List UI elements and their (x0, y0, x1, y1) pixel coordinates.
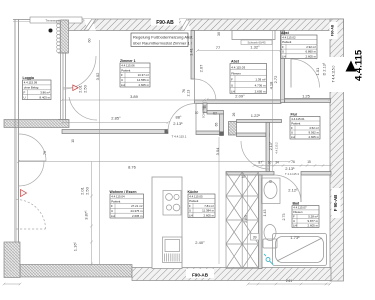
svg-text:Abst: Abst (231, 60, 240, 64)
svg-text:27.21 m²: 27.21 m² (131, 204, 142, 208)
svg-text:Parkett: Parkett (189, 199, 198, 203)
kitchen stove (163, 191, 181, 216)
door arc wohnen left upper (19, 134, 46, 161)
svg-text:2.605 m: 2.605 m (132, 214, 143, 218)
svg-text:65: 65 (215, 123, 219, 127)
svg-text:3.87⁵: 3.87⁵ (84, 210, 89, 220)
wall break mark 1 (84, 19, 96, 31)
svg-text:2.605 m: 2.605 m (255, 89, 266, 93)
label box 39 (251, 234, 260, 241)
svg-text:2.13⁵: 2.13⁵ (173, 121, 183, 126)
svg-text:2.13°: 2.13° (269, 141, 273, 150)
svg-text:LH: LH (291, 135, 295, 139)
svg-text:4.18: 4.18 (269, 81, 274, 90)
svg-text:Fliesen: Fliesen (231, 71, 241, 75)
wall top exterior F90-AB band (63, 19, 344, 31)
wall zimmer1 bottom partition (62, 130, 168, 134)
wall cap dark kueche top (266, 133, 270, 137)
svg-text:2.50: 2.50 (85, 186, 90, 195)
svg-text:11.384 m: 11.384 m (202, 209, 214, 213)
svg-text:2.605 m: 2.605 m (204, 213, 215, 217)
svg-text:10: 10 (241, 175, 245, 179)
svg-text:U: U (293, 219, 295, 223)
svg-text:T 4.4.115.1: T 4.4.115.1 (172, 134, 187, 138)
wall loggia-zimmer1 crosshatch (61, 20, 69, 53)
svg-text:2.13: 2.13 (187, 90, 191, 97)
svg-text:Wohnen / Essen: Wohnen / Essen (110, 190, 137, 194)
door arc wohnen left lower (19, 161, 44, 186)
svg-text:4.4.115.03: 4.4.115.03 (231, 65, 245, 69)
svg-text:4.4.115: 4.4.115 (354, 49, 365, 81)
svg-text:Loggia: Loggia (23, 76, 35, 80)
note box fussbodenheizung (131, 33, 194, 47)
svg-text:62: 62 (213, 112, 217, 116)
wall right exterior band (330, 19, 344, 281)
wall bottom left band (20, 265, 132, 278)
entrance opening in right wall (330, 57, 345, 92)
svg-text:U: U (121, 78, 123, 82)
kitchen counter (152, 177, 182, 269)
bath vanity (262, 178, 281, 204)
svg-text:2.605 m: 2.605 m (306, 54, 317, 58)
svg-text:Küche: Küche (188, 190, 199, 194)
svg-text:Fliesen: Fliesen (293, 210, 303, 214)
svg-text:2.40°: 2.40° (195, 240, 205, 245)
window loggia french door frame (58, 53, 68, 120)
svg-text:Regelung Fußbodenheizung Abst.: Regelung Fußbodenheizung Abst. (133, 35, 194, 40)
svg-text:4.4.115.01: 4.4.115.01 (291, 117, 305, 121)
svg-text:24.375 m: 24.375 m (130, 209, 143, 213)
table abst (230, 60, 267, 94)
svg-text:9.562 m: 9.562 m (309, 130, 320, 134)
svg-text:1.25: 1.25 (302, 94, 311, 99)
svg-text:8.76: 8.76 (128, 165, 137, 170)
wall kueche top (237, 133, 270, 137)
faucet marker cyan (264, 254, 273, 265)
svg-text:U: U (282, 50, 284, 54)
svg-text:F 90-AB: F 90-AB (333, 195, 338, 212)
table kueche (188, 190, 216, 218)
svg-text:1.39 m²: 1.39 m² (255, 77, 265, 81)
svg-text:Parkett: Parkett (111, 199, 120, 203)
svg-text:4.4.115.05: 4.4.115.05 (189, 195, 203, 199)
door arc dashed wohnen outward (16, 200, 46, 230)
svg-text:13.37 m²: 13.37 m² (138, 73, 149, 77)
svg-text:2.12⁵: 2.12⁵ (288, 188, 298, 193)
table bad (292, 202, 319, 228)
svg-text:4.736 m: 4.736 m (255, 83, 266, 87)
svg-text:2.13⁵: 2.13⁵ (285, 166, 295, 171)
svg-text:3.89: 3.89 (130, 94, 139, 99)
svg-text:14.555 m: 14.555 m (137, 78, 150, 82)
label F90-AB top wall (151, 18, 179, 27)
door arc entrance (291, 59, 320, 88)
wall loggia top parapet line (13, 19, 63, 21)
wall break mark 2 (180, 19, 191, 31)
svg-text:1.41: 1.41 (189, 47, 194, 56)
svg-text:10: 10 (268, 161, 272, 165)
marker red triangle loggia door (63, 85, 78, 91)
svg-text:F: F (282, 45, 284, 49)
label F 90-AB right wall (332, 188, 341, 218)
svg-text:9.877 m: 9.877 m (308, 219, 319, 223)
svg-text:7.81 m²: 7.81 m² (204, 204, 214, 208)
svg-text:LH: LH (282, 54, 286, 58)
svg-text:26: 26 (232, 113, 236, 117)
svg-text:F: F (111, 204, 113, 208)
wall left glazing lines (14, 20, 16, 243)
svg-text:über Raumthermostat Zimmer 1 !: über Raumthermostat Zimmer 1 ! (133, 41, 192, 46)
svg-text:2.92 m²: 2.92 m² (306, 45, 316, 49)
door arc abst (195, 79, 217, 101)
svg-text:LH: LH (293, 223, 297, 227)
svg-text:2.73: 2.73 (282, 214, 286, 221)
svg-text:F: F (293, 215, 295, 219)
door leaf wohnen left upper (19, 160, 46, 162)
svg-text:8.403 m: 8.403 m (40, 95, 51, 99)
svg-text:F90-AB: F90-AB (331, 24, 335, 36)
marker red triangle wohnen door (21, 190, 27, 197)
dimension marks bottom-left (4, 283, 20, 285)
svg-text:4.4.115.04: 4.4.115.04 (111, 195, 125, 199)
svg-text:2.09°: 2.09° (235, 94, 245, 99)
table abst2 (281, 31, 317, 59)
table wohnen-essen (110, 190, 144, 218)
svg-text:2.83: 2.83 (243, 214, 248, 223)
svg-text:1.32°: 1.32° (250, 45, 260, 50)
svg-text:60: 60 (88, 39, 92, 43)
wall left lower exterior (4, 242, 20, 278)
svg-text:LH: LH (111, 214, 115, 218)
wall bad west vertical (266, 123, 270, 172)
door zimmer1 leaf (195, 104, 197, 132)
svg-text:U: U (231, 83, 233, 87)
wall bad-shaft vertical (259, 175, 263, 269)
svg-text:4.4.115.09: 4.4.115.09 (24, 81, 38, 85)
svg-text:34: 34 (275, 161, 279, 165)
svg-text:2.605 m: 2.605 m (139, 83, 150, 87)
svg-text:6.860 m: 6.860 m (306, 50, 317, 54)
svg-text:1.43: 1.43 (263, 210, 267, 217)
door leaf abst (194, 79, 196, 101)
svg-text:U: U (111, 209, 113, 213)
svg-text:LH: LH (231, 89, 235, 93)
svg-text:1.01: 1.01 (315, 67, 320, 76)
label F90-AB right wall top (330, 22, 338, 39)
svg-text:10: 10 (71, 139, 75, 143)
svg-text:Parkett: Parkett (282, 40, 291, 44)
svg-text:3.86 m²: 3.86 m² (40, 91, 50, 95)
svg-text:F90-AB: F90-AB (156, 20, 174, 26)
label big 4.4.115 (346, 49, 365, 81)
wall pier crosshatch kueche (229, 122, 237, 136)
door arc kueche (241, 141, 269, 169)
wall corridor-kueche upper (237, 120, 282, 123)
bathtub (273, 234, 327, 266)
wall zimmer1-abst vertical (191, 31, 195, 80)
svg-text:Abst: Abst (281, 31, 290, 35)
svg-text:1.22⁵: 1.22⁵ (251, 113, 261, 118)
wall flur jog vertical (203, 103, 207, 113)
wall bottom main F90-AB band (132, 268, 331, 281)
svg-text:76: 76 (291, 160, 295, 164)
wall loggia-zimmer1 insulation rings (57, 20, 61, 52)
svg-text:D 2.13⁵: D 2.13⁵ (323, 62, 327, 75)
bath wc (263, 225, 277, 249)
svg-text:1.73⁵: 1.73⁵ (290, 235, 300, 240)
svg-text:10: 10 (195, 111, 199, 115)
svg-text:LH: LH (121, 83, 125, 87)
label box trennwand (30, 17, 82, 23)
wall flur niche right vertical (220, 114, 224, 136)
wall flur niche top (207, 111, 224, 115)
wall abst2 bottom / flur top (285, 99, 331, 103)
svg-text:2.72: 2.72 (273, 75, 278, 84)
svg-text:5.28 m²: 5.28 m² (308, 215, 318, 219)
door arc zimmer1 (168, 104, 196, 132)
niche wardrobe under top wall (232, 31, 275, 40)
svg-text:F: F (189, 204, 191, 208)
svg-text:LH: LH (189, 213, 193, 217)
column dot marker (49, 29, 53, 33)
svg-text:Zimmer 1: Zimmer 1 (120, 59, 136, 63)
svg-text:88°: 88° (175, 115, 181, 120)
svg-text:4.4.115.2: 4.4.115.2 (275, 142, 279, 154)
door leaf bad (300, 175, 302, 202)
svg-text:F: F (291, 126, 293, 130)
dimension texts (43, 32, 327, 283)
svg-text:3.02: 3.02 (95, 72, 100, 81)
svg-text:F: F (121, 73, 123, 77)
svg-text:3.04: 3.04 (215, 147, 220, 156)
kitchen sink unit (163, 237, 183, 263)
svg-text:F: F (231, 77, 233, 81)
wall partition piece right of zimmer1 door (196, 131, 224, 135)
wall bad top (226, 172, 274, 176)
svg-text:F: F (24, 91, 26, 95)
dimension lines (3, 31, 333, 286)
svg-text:4.4.115.06: 4.4.115.06 (121, 64, 135, 68)
svg-text:F90-AB: F90-AB (192, 273, 209, 278)
wall cap dark flur niche (220, 132, 224, 136)
svg-text:15: 15 (307, 160, 311, 164)
svg-text:2.85°: 2.85° (111, 116, 121, 121)
svg-text:Parkett: Parkett (121, 68, 130, 72)
svg-text:2.605 m: 2.605 m (309, 135, 320, 139)
table zimmer1 (120, 59, 150, 87)
svg-text:76: 76 (182, 89, 186, 93)
shaft grid (226, 172, 259, 269)
table loggia (23, 76, 52, 100)
svg-text:4.4.115.02: 4.4.115.02 (282, 36, 296, 40)
svg-text:Parkett: Parkett (291, 121, 300, 125)
label box niche (241, 40, 272, 45)
svg-text:ohne Belag: ohne Belag (24, 86, 39, 90)
svg-text:U: U (189, 209, 191, 213)
svg-text:4.52 m²: 4.52 m² (309, 126, 319, 130)
svg-text:U: U (24, 95, 26, 99)
svg-text:2.07: 2.07 (199, 64, 204, 73)
svg-text:77: 77 (216, 45, 221, 50)
door leaf entrance (290, 59, 292, 88)
svg-text:T 4.4.115.3: T 4.4.115.3 (285, 172, 299, 176)
svg-text:2.605 m: 2.605 m (308, 223, 319, 227)
wall cap dark zimmer1 partition end (165, 130, 169, 134)
table flur (290, 113, 320, 140)
svg-text:10: 10 (203, 105, 207, 109)
svg-text:87°: 87° (258, 161, 264, 165)
svg-text:T 4.4.115.0: T 4.4.115.0 (332, 65, 336, 82)
label F90-AB bottom wall (186, 269, 214, 278)
svg-text:2.61: 2.61 (286, 279, 292, 283)
door arc loggia-zimmer1 lower leaf (69, 97, 97, 120)
svg-text:2.50: 2.50 (83, 84, 88, 93)
svg-text:39: 39 (253, 236, 257, 240)
svg-text:30: 30 (217, 32, 221, 36)
door arc loggia-zimmer1 upper leaf (63, 56, 96, 89)
svg-text:U: U (291, 130, 293, 134)
door arc bad (274, 175, 301, 202)
svg-text:4.4.115.07: 4.4.115.07 (293, 206, 307, 210)
svg-text:1.16⁵: 1.16⁵ (73, 241, 78, 251)
svg-text:70: 70 (43, 151, 47, 155)
wall abst bottom (195, 100, 282, 104)
wall abst2 west vertical (281, 31, 285, 103)
wall loggia bottom (4, 120, 69, 128)
